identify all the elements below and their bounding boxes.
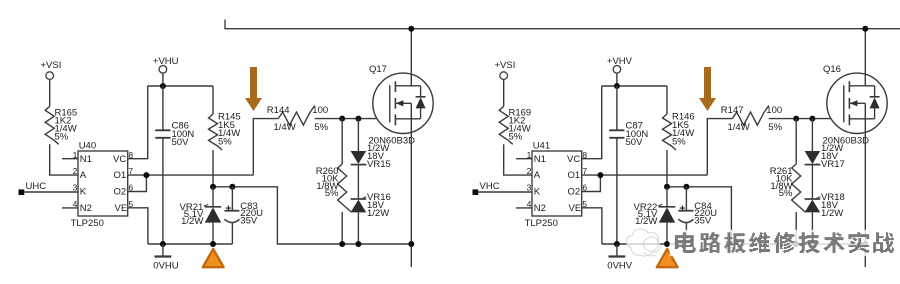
wire +VHV rail — [602, 73, 667, 86]
junction gate / R260 — [339, 116, 345, 122]
node VHC input net — [473, 181, 533, 195]
annotation arrow (left) — [245, 67, 262, 111]
svg-text:VC: VC — [567, 154, 580, 165]
resistor R146 1K5 — [663, 86, 695, 187]
junction source bus — [793, 241, 799, 247]
svg-text:Q16: Q16 — [823, 64, 841, 75]
svg-text:O2: O2 — [568, 187, 581, 198]
ground 0VHV — [607, 244, 632, 272]
svg-text:+VSI: +VSI — [41, 60, 62, 71]
zener VR17 18V — [805, 119, 845, 199]
zener VR22 5.1V — [634, 187, 676, 244]
svg-text:6: 6 — [128, 183, 133, 193]
terminal +VSI (left) — [41, 60, 62, 80]
svg-text:1: 1 — [73, 150, 78, 160]
svg-text:VE: VE — [569, 203, 582, 214]
svg-text:+VSI: +VSI — [495, 60, 516, 71]
svg-text:5%: 5% — [779, 188, 793, 199]
svg-text:R147: R147 — [721, 105, 744, 116]
svg-text:VE: VE — [115, 203, 128, 214]
Q16 source contact — [849, 103, 874, 267]
svg-text:0VHV: 0VHV — [607, 261, 632, 272]
svg-text:8: 8 — [128, 150, 133, 160]
svg-text:100: 100 — [766, 105, 782, 116]
svg-text:1: 1 — [527, 150, 532, 160]
svg-text:35V: 35V — [694, 215, 712, 226]
terminal +VHV — [607, 56, 633, 73]
wire R165 to pin2 — [50, 144, 78, 175]
svg-text:N2: N2 — [80, 203, 92, 214]
svg-text:1/2W: 1/2W — [181, 216, 203, 227]
svg-text:3: 3 — [73, 183, 78, 193]
svg-text:6: 6 — [582, 183, 587, 193]
svg-text:35V: 35V — [240, 215, 258, 226]
svg-text:U40: U40 — [79, 140, 96, 151]
resistor R145 1K5 — [209, 86, 241, 187]
junction bias/zener — [210, 184, 216, 190]
Q16 drain contact — [849, 29, 874, 86]
wire R169 to pin2 — [504, 144, 532, 175]
svg-text:VR17: VR17 — [821, 159, 845, 170]
svg-text:1/2W: 1/2W — [367, 208, 389, 219]
junction bias/cap — [683, 184, 689, 190]
wire top power rail — [225, 20, 900, 29]
junction bias/zener — [664, 184, 670, 190]
annotation triangle (right) — [657, 249, 678, 267]
resistor R169 1K2 — [499, 106, 531, 144]
svg-text:N2: N2 — [534, 203, 546, 214]
svg-text:O2: O2 — [114, 187, 127, 198]
svg-text:O1: O1 — [568, 170, 581, 181]
resistor R261 10K — [770, 119, 805, 244]
op-amp / optocoupler U40 TLP250 — [71, 140, 128, 229]
svg-text:3: 3 — [527, 183, 532, 193]
svg-text:5%: 5% — [672, 137, 686, 148]
svg-text:0VHU: 0VHU — [153, 261, 178, 272]
junction bias/cap — [229, 184, 235, 190]
svg-text:1/4W: 1/4W — [728, 122, 750, 133]
watermark text (traced glyph paths) — [670, 230, 879, 256]
watermark logo cloud — [626, 229, 660, 256]
Q17 gate bar — [389, 85, 391, 122]
svg-text:5%: 5% — [509, 131, 523, 142]
svg-text:1/4W: 1/4W — [274, 122, 296, 133]
svg-text:4: 4 — [527, 199, 532, 209]
svg-text:4: 4 — [73, 199, 78, 209]
junction +VHU rail — [160, 83, 166, 89]
Q16 channel segments — [848, 81, 850, 125]
svg-text:UHC: UHC — [26, 181, 47, 192]
Q16 body contact with arrow — [850, 100, 866, 106]
svg-text:50V: 50V — [172, 137, 190, 148]
pin 1 N1 — [62, 150, 92, 165]
svg-text:+VHV: +VHV — [607, 56, 633, 67]
svg-text:7: 7 — [582, 166, 587, 176]
wire bias bus — [667, 187, 865, 244]
svg-text:K: K — [534, 187, 541, 198]
Q17 drain contact — [395, 29, 420, 86]
svg-text:VR15: VR15 — [367, 159, 391, 170]
Q17 source contact — [395, 103, 420, 267]
svg-text:8: 8 — [582, 150, 587, 160]
capacitor C83 220U — [224, 187, 263, 244]
pin 7 O1 — [114, 166, 254, 181]
transistor Q16 20N60B3D — [823, 64, 888, 147]
svg-text:K: K — [80, 187, 87, 198]
svg-text:5%: 5% — [218, 137, 232, 148]
svg-text:R144: R144 — [267, 105, 290, 116]
junction +VHV rail — [614, 83, 620, 89]
pin 8 VC — [567, 86, 602, 165]
wire ground bus — [148, 243, 233, 245]
wire ground bus — [602, 243, 687, 245]
Q16 gate bar — [843, 85, 845, 122]
svg-text:2: 2 — [527, 166, 532, 176]
Q17 body contact with arrow — [396, 100, 412, 106]
capacitor C86 100N — [155, 86, 194, 244]
pin 6 O2 — [568, 175, 601, 198]
Q17 channel segments — [394, 81, 396, 125]
junction gate / zeners — [355, 116, 361, 122]
svg-text:1/2W: 1/2W — [635, 216, 657, 227]
svg-text:5: 5 — [128, 199, 133, 209]
svg-text:O1: O1 — [114, 170, 127, 181]
svg-text:U41: U41 — [533, 140, 550, 151]
svg-text:A: A — [534, 170, 541, 181]
capacitor C87 100N — [609, 86, 648, 244]
resistor R260 10K — [316, 119, 351, 244]
junction gate / R260 — [793, 116, 799, 122]
wire output to gate resistor — [253, 119, 278, 176]
pin 7 O1 — [568, 166, 708, 181]
wire output to gate resistor — [707, 119, 732, 176]
svg-text:N1: N1 — [534, 154, 546, 165]
node UHC input net — [19, 181, 79, 195]
svg-text:50V: 50V — [626, 137, 644, 148]
svg-text:A: A — [80, 170, 87, 181]
svg-text:20N60B3D: 20N60B3D — [369, 136, 416, 147]
svg-text:VHC: VHC — [480, 181, 500, 192]
annotation arrow (right) — [699, 67, 716, 111]
zener VR15 18V — [351, 119, 391, 199]
zener VR18 18V — [805, 192, 845, 244]
svg-text:2: 2 — [73, 166, 78, 176]
junction drain / top rail — [862, 26, 868, 32]
wire +VSI to R169 — [503, 79, 505, 106]
Q16 body diode — [870, 86, 880, 119]
pin 1 N1 — [516, 150, 546, 165]
svg-text:5%: 5% — [325, 188, 339, 199]
resistor R144 100 — [267, 105, 390, 133]
pin 5 VE — [569, 199, 602, 244]
terminal +VSI (right) — [495, 60, 516, 80]
junction gnd/C — [614, 241, 620, 247]
ground 0VHU — [153, 244, 178, 272]
junction drain / top rail — [408, 26, 414, 32]
svg-text:Q17: Q17 — [369, 64, 387, 75]
pin 4 N2 — [62, 199, 92, 214]
svg-text:7: 7 — [128, 166, 133, 176]
junction O1/O2 — [597, 172, 603, 178]
svg-text:N1: N1 — [80, 154, 92, 165]
junction gate / zeners — [809, 116, 815, 122]
svg-text:VC: VC — [113, 154, 126, 165]
wire +VSI to R165 — [49, 79, 51, 106]
junction gnd/zener — [210, 241, 216, 247]
svg-text:5%: 5% — [768, 122, 782, 133]
svg-text:+VHU: +VHU — [153, 56, 179, 67]
pin 8 VC — [113, 86, 148, 165]
svg-text:100: 100 — [312, 105, 328, 116]
svg-text:TLP250: TLP250 — [71, 218, 104, 229]
pin 6 O2 — [114, 175, 147, 198]
junction source bus — [339, 241, 345, 247]
wire bias bus — [213, 187, 411, 244]
zener VR21 5.1V — [180, 187, 222, 244]
resistor R147 100 — [721, 105, 844, 133]
resistor R165 1K2 — [45, 106, 77, 144]
svg-text:5%: 5% — [55, 131, 69, 142]
svg-text:5: 5 — [582, 199, 587, 209]
wire +VHU rail — [148, 73, 213, 86]
svg-text:TLP250: TLP250 — [525, 218, 558, 229]
pin 4 N2 — [516, 199, 546, 214]
Q17 body diode — [416, 86, 426, 119]
svg-text:1/2W: 1/2W — [821, 208, 843, 219]
capacitor C84 220U — [678, 187, 717, 244]
terminal +VHU — [153, 56, 179, 73]
zener VR16 18V — [351, 192, 391, 244]
annotation triangle (left) — [203, 249, 224, 267]
junction gnd/C — [160, 241, 166, 247]
transistor Q17 20N60B3D — [369, 64, 434, 147]
pin 5 VE — [115, 199, 148, 244]
junction gnd/zener — [664, 241, 670, 247]
junction O1/O2 — [143, 172, 149, 178]
svg-text:5%: 5% — [314, 122, 328, 133]
svg-text:20N60B3D: 20N60B3D — [823, 136, 870, 147]
op-amp / optocoupler U41 TLP250 — [525, 140, 582, 229]
